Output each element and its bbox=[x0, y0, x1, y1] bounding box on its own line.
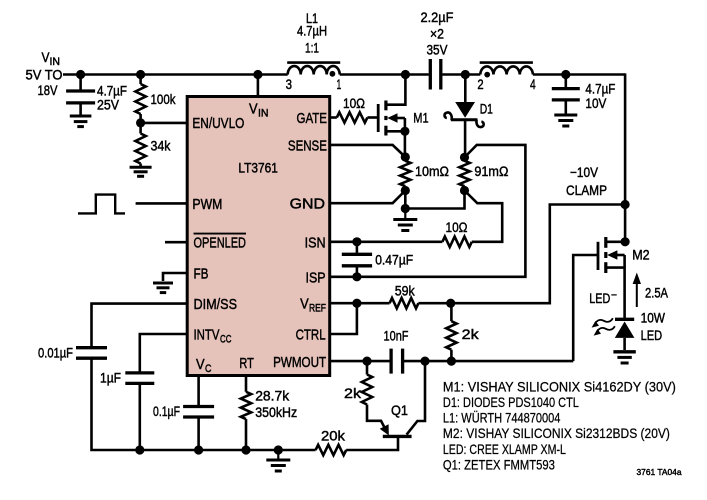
wire OPENLED pin stub bbox=[165, 241, 186, 244]
svg-text:25V: 25V bbox=[97, 96, 120, 112]
svg-text:0.47µF: 0.47µF bbox=[375, 251, 413, 267]
svg-text:10W: 10W bbox=[641, 310, 666, 326]
diode D1 schottky bbox=[445, 75, 484, 128]
svg-text:M1: M1 bbox=[413, 110, 428, 126]
wire GND pin kelvin to 10m bottom bbox=[331, 191, 405, 204]
ground under 10mOhm bbox=[393, 209, 417, 231]
node ISP 0.47uF junction bbox=[352, 272, 361, 281]
svg-text:LT3761: LT3761 bbox=[238, 160, 278, 176]
wire DIM/SS to 0.01uF bbox=[92, 304, 187, 347]
node EN/UVLO divider junction bbox=[136, 118, 145, 127]
resistor R4 20k bbox=[316, 445, 347, 455]
wire winding2 to right rail corner bbox=[533, 73, 625, 76]
wire ISP kelvin to 91m top bbox=[331, 145, 525, 277]
node clamp rail junction bbox=[621, 200, 630, 209]
IC pin label VREF bbox=[300, 296, 326, 315]
capacitor C2 0.01uF bbox=[76, 348, 107, 359]
wire right rail down to M2 drain bbox=[624, 73, 627, 241]
svg-text:−: − bbox=[611, 290, 617, 302]
svg-text:3: 3 bbox=[286, 76, 293, 92]
wire 0.01uF to bottom rail bbox=[92, 359, 316, 450]
svg-text:EN/UVLO: EN/UVLO bbox=[192, 115, 244, 132]
svg-text:2k: 2k bbox=[344, 385, 362, 401]
wire VIN pin stub bbox=[257, 75, 260, 97]
node 91m bottom bbox=[460, 186, 469, 195]
node 1uF rail junction bbox=[135, 445, 144, 454]
svg-text:34k: 34k bbox=[151, 138, 172, 154]
ground bottom rail bbox=[266, 450, 290, 471]
svg-text:10Ω: 10Ω bbox=[343, 95, 365, 111]
svg-text:IN: IN bbox=[258, 108, 269, 120]
svg-text:3761 TA04a: 3761 TA04a bbox=[637, 467, 682, 477]
svg-text:2: 2 bbox=[477, 76, 483, 92]
svg-text:1: 1 bbox=[337, 76, 342, 92]
wire SENSE pin kelvin to 10m top bbox=[331, 145, 405, 157]
resistor R2 34k bbox=[135, 123, 145, 167]
svg-text:1µF: 1µF bbox=[100, 370, 121, 386]
svg-text:0.01µF: 0.01µF bbox=[38, 344, 73, 360]
wire VC pin to 0.1uF bbox=[197, 375, 200, 406]
svg-text:D1: D1 bbox=[480, 101, 493, 117]
svg-text:1:1: 1:1 bbox=[305, 39, 319, 55]
ground under C6 bbox=[554, 115, 577, 126]
node RT rail junction bbox=[241, 445, 250, 454]
wire M1 source to 10m top bbox=[404, 131, 407, 157]
node 10m bottom bbox=[401, 186, 410, 195]
resistor R11 2k left bbox=[362, 375, 372, 405]
capacitor C1 4.7uF 25V input bbox=[66, 75, 95, 116]
node 10m top bbox=[401, 152, 410, 161]
svg-text:35V: 35V bbox=[427, 42, 449, 58]
ground under C1 bbox=[70, 116, 92, 127]
wire 10m bottom to ground node bbox=[405, 191, 464, 209]
wire 10ohm to M1 gate bbox=[367, 116, 378, 119]
svg-text:C: C bbox=[205, 363, 212, 375]
svg-text:REF: REF bbox=[309, 303, 326, 315]
svg-text:4.7µH: 4.7µH bbox=[297, 23, 327, 39]
IC pin label VC bbox=[196, 356, 212, 375]
node 2k right junction bbox=[447, 357, 456, 366]
wire 1uF to bottom rail bbox=[139, 384, 142, 450]
node label LED- bbox=[589, 290, 617, 307]
svg-text:DIM/SS: DIM/SS bbox=[194, 296, 238, 313]
svg-text:D1: DIODES PDS1040 CTL: D1: DIODES PDS1040 CTL bbox=[443, 394, 579, 410]
svg-text:CLAMP: CLAMP bbox=[566, 182, 607, 198]
svg-text:−10V: −10V bbox=[570, 164, 599, 180]
svg-text:FB: FB bbox=[194, 266, 209, 283]
current arrow 2.5A bbox=[633, 273, 641, 308]
wire PWMOUT to 10nF bbox=[331, 360, 391, 363]
node Q1 collector junction bbox=[420, 357, 429, 366]
svg-text:4.7µF: 4.7µF bbox=[585, 80, 615, 96]
transformer L1 core bar primary bbox=[287, 61, 340, 64]
wire rail winding1 to M1/cap bbox=[340, 73, 429, 76]
resistor R10 2k right bbox=[446, 321, 456, 350]
wire 59k to clamp node bbox=[418, 205, 625, 304]
transformer L1 primary phase dot (pin 1) bbox=[330, 71, 336, 77]
resistor R5 10ohm gate bbox=[337, 112, 368, 122]
PWM input pulse waveform bbox=[78, 195, 125, 214]
IC pin label VIN (top) bbox=[249, 101, 269, 120]
node bottom rail ground junction bbox=[274, 445, 283, 454]
wire Q1 collector up to PWMOUT bbox=[407, 361, 425, 435]
svg-text:Q1: Q1 bbox=[391, 402, 408, 418]
capacitor C7 0.47uF bbox=[342, 242, 372, 277]
capacitor C3 1uF bbox=[125, 373, 154, 384]
svg-text:GND: GND bbox=[290, 196, 325, 213]
wire VREF to 59k bbox=[331, 302, 390, 305]
svg-text:20k: 20k bbox=[321, 428, 346, 444]
resistor R9 59k bbox=[390, 298, 419, 308]
wire cap 2.2uF to D1 node and winding2 bbox=[442, 73, 480, 76]
svg-text:350kHz: 350kHz bbox=[255, 404, 297, 420]
wire D1 cathode to 91m top bbox=[464, 120, 467, 158]
svg-text:CTRL: CTRL bbox=[296, 327, 326, 344]
wire 28.7k to bottom rail bbox=[245, 419, 248, 450]
wire INTVCC to 1uF bbox=[140, 334, 186, 372]
svg-text:OPENLED: OPENLED bbox=[194, 235, 247, 252]
node label VIN bbox=[42, 49, 61, 68]
node VIN rail junction 1 bbox=[76, 70, 85, 79]
svg-text:10V: 10V bbox=[585, 95, 607, 111]
transformer L1 secondary phase dot (pin 2) bbox=[484, 72, 490, 78]
svg-text:ISP: ISP bbox=[306, 269, 326, 286]
svg-text:59k: 59k bbox=[395, 283, 416, 299]
transistor Q1 PNP bbox=[367, 407, 412, 436]
svg-text:V: V bbox=[249, 101, 258, 118]
svg-text:Q1: ZETEX FMMT593: Q1: ZETEX FMMT593 bbox=[443, 456, 555, 472]
IC U1 LT3761 body bbox=[187, 97, 330, 376]
node SW rail junction (M1 drain) bbox=[401, 70, 410, 79]
resistor R8 10ohm ISN bbox=[442, 237, 471, 247]
svg-text:LED: CREE XLAMP XM-L: LED: CREE XLAMP XM-L bbox=[443, 441, 566, 457]
svg-text:10nF: 10nF bbox=[384, 328, 409, 344]
svg-text:10Ω: 10Ω bbox=[446, 219, 468, 235]
capacitor C5 2.2uF x2 35V bbox=[430, 59, 441, 90]
node VREF/CTRL junction bbox=[352, 299, 361, 308]
ground at FB pin bbox=[153, 283, 173, 293]
svg-text:M2: M2 bbox=[632, 247, 650, 263]
svg-text:V: V bbox=[196, 356, 205, 373]
wire 0.1uF to bottom rail bbox=[197, 418, 200, 450]
svg-text:2.2µF: 2.2µF bbox=[421, 9, 454, 25]
ground under LED bbox=[613, 352, 635, 363]
wire EN/UVLO to divider bbox=[141, 122, 186, 125]
svg-text:M1: VISHAY SILICONIX Si4162DY: M1: VISHAY SILICONIX Si4162DY (30V) bbox=[443, 378, 676, 394]
wire GATE pin to 10ohm bbox=[331, 116, 337, 119]
node 91m top bbox=[460, 153, 469, 162]
svg-text:CC: CC bbox=[220, 333, 232, 345]
svg-text:91mΩ: 91mΩ bbox=[474, 163, 508, 179]
node D1 anode junction bbox=[461, 70, 470, 79]
transformer L1 primary winding bbox=[288, 66, 340, 74]
svg-text:M2: VISHAY SILICONIX Si2312BDS: M2: VISHAY SILICONIX Si2312BDS (20V) bbox=[443, 425, 670, 441]
wire RT pin to 28.7k bbox=[245, 375, 248, 392]
svg-text:4: 4 bbox=[530, 76, 536, 92]
svg-text:18V: 18V bbox=[38, 82, 59, 98]
resistor R6 10mOhm bbox=[400, 157, 410, 191]
resistor R1 100k bbox=[135, 75, 145, 123]
svg-text:×2: ×2 bbox=[430, 26, 444, 42]
wire 2k right stubs bbox=[450, 303, 453, 361]
svg-text:LED: LED bbox=[589, 290, 610, 306]
capacitor C8 10nF bbox=[391, 349, 403, 374]
svg-text:5V TO: 5V TO bbox=[26, 67, 63, 83]
svg-text:GATE: GATE bbox=[297, 110, 328, 127]
node PWMOUT 2k junction bbox=[362, 357, 371, 366]
transformer L1 secondary winding bbox=[480, 66, 533, 74]
LED D2 10W bbox=[615, 319, 635, 350]
svg-text:LED: LED bbox=[641, 327, 663, 343]
node VC rail junction bbox=[194, 445, 203, 454]
node sense ground bbox=[401, 204, 410, 213]
svg-text:INTV: INTV bbox=[194, 326, 221, 343]
svg-text:PWM: PWM bbox=[192, 196, 222, 213]
svg-text:2.5A: 2.5A bbox=[645, 285, 669, 301]
node VOUT junction (4.7uF) bbox=[561, 70, 570, 79]
wire CTRL tie to VREF bbox=[331, 303, 357, 334]
svg-text:2k: 2k bbox=[462, 326, 480, 342]
resistor R3 28.7k bbox=[241, 392, 251, 419]
node ISN 0.47uF junction bbox=[352, 237, 361, 246]
wire ISN to 10ohm bbox=[331, 241, 442, 244]
LED light emission arrows bbox=[592, 318, 615, 335]
wire M2 gate vertical bbox=[573, 255, 598, 361]
wire FB pin to ground bbox=[163, 273, 186, 281]
wire bottom rail 20k to Q1 base bbox=[346, 436, 398, 450]
svg-text:ISN: ISN bbox=[305, 234, 326, 251]
svg-text:28.7k: 28.7k bbox=[255, 387, 290, 403]
node VIN rail junction 3 (VIN pin) bbox=[253, 70, 262, 79]
resistor R7 91mOhm bbox=[459, 157, 469, 190]
wire 2k left to Q1 emitter bbox=[366, 361, 369, 407]
node VIN rail junction 2 (100k) bbox=[136, 70, 145, 79]
ground under R2 34k bbox=[130, 167, 152, 176]
svg-text:SENSE: SENSE bbox=[288, 137, 327, 154]
transformer L1 core bar secondary bbox=[480, 61, 533, 64]
svg-text:L1: WÜRTH 744870004: L1: WÜRTH 744870004 bbox=[443, 409, 561, 426]
wire PWM pin bbox=[136, 202, 186, 205]
svg-text:100k: 100k bbox=[151, 91, 177, 107]
transistor M1 NMOS bbox=[378, 75, 409, 136]
svg-text:PWMOUT: PWMOUT bbox=[273, 354, 326, 371]
wire top input rail VIN bbox=[63, 73, 288, 76]
capacitor C4 0.1uF bbox=[183, 407, 214, 418]
wire 10ohm to 91m bottom kelvin bbox=[465, 191, 503, 242]
svg-text:10mΩ: 10mΩ bbox=[415, 163, 449, 179]
wire 10nF to M2 gate line bbox=[403, 360, 574, 363]
node M2 drain bbox=[621, 237, 630, 246]
IC pin label INTVCC bbox=[194, 326, 232, 345]
node 59k/2k junction bbox=[446, 299, 455, 308]
svg-text:RT: RT bbox=[239, 355, 254, 372]
transistor M2 NMOS bbox=[598, 237, 625, 319]
capacitor C6 4.7uF 10V output bbox=[552, 75, 580, 115]
svg-text:0.1µF: 0.1µF bbox=[153, 403, 180, 419]
